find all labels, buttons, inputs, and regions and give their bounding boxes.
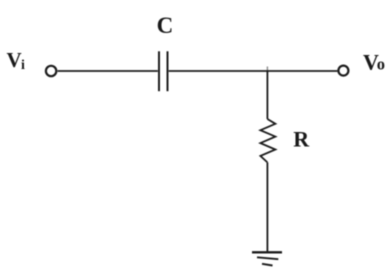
svg-text:o: o bbox=[377, 55, 385, 74]
svg-text:V: V bbox=[7, 48, 22, 72]
svg-text:i: i bbox=[21, 58, 25, 73]
svg-text:C: C bbox=[157, 13, 174, 38]
svg-text:R: R bbox=[293, 127, 310, 152]
